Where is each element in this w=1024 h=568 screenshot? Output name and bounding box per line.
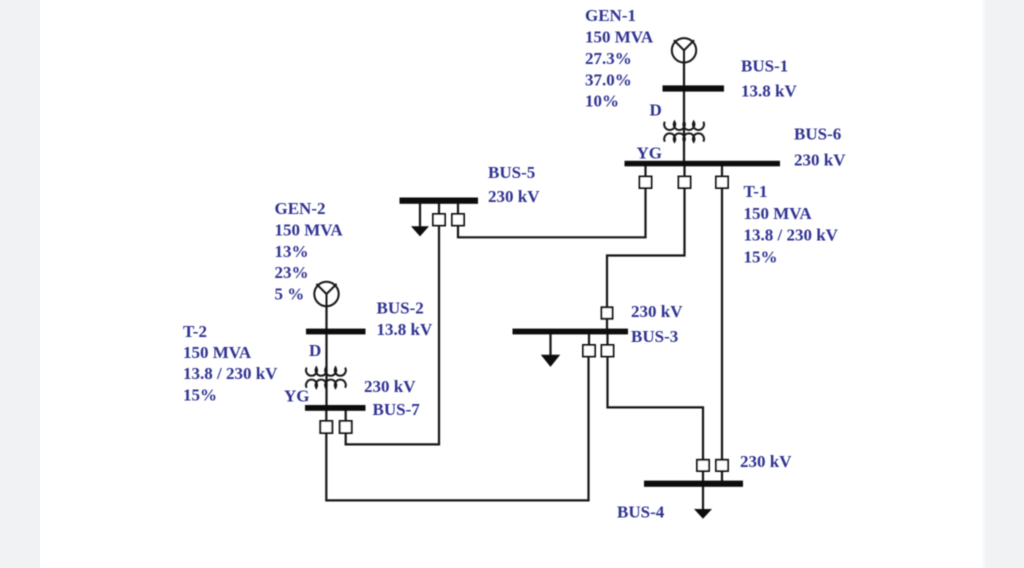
breaker BUS-3 1: [583, 345, 595, 357]
wire BUS-3 breaker 2 to BUS-4 breaker 1: [608, 357, 704, 460]
breaker BUS-6 B: [679, 177, 691, 189]
svg-text:27.3%: 27.3%: [585, 49, 632, 68]
breaker BUS-4 1: [697, 460, 709, 471]
svg-text:BUS-7: BUS-7: [373, 400, 421, 419]
breaker above BUS-3: [602, 307, 613, 318]
svg-text:230 kV: 230 kV: [631, 302, 683, 321]
wire BUS-5 breaker B stem: [457, 204, 459, 214]
svg-text:10%: 10%: [585, 92, 619, 111]
transformer T-1: [664, 122, 704, 142]
label T-2 block: [183, 322, 278, 405]
wire BUS-5 breaker A to BUS-7 breaker 2: [346, 226, 439, 445]
wire BUS-3 load stem: [549, 334, 551, 356]
breaker BUS-7 2: [340, 421, 352, 433]
load arrow BUS-3: [541, 355, 560, 367]
svg-text:13.8 / 230 kV: 13.8 / 230 kV: [744, 226, 839, 245]
bus BUS-3: [513, 329, 629, 335]
svg-text:T-1: T-1: [744, 182, 768, 201]
bus BUS-4: [644, 481, 743, 487]
svg-text:230 kV: 230 kV: [488, 187, 540, 206]
svg-text:230 kV: 230 kV: [364, 377, 416, 396]
T-2 primary winding (delta side): [306, 368, 346, 376]
svg-text:150 MVA: 150 MVA: [744, 204, 813, 223]
svg-text:BUS-5: BUS-5: [488, 163, 535, 182]
breaker BUS-5 B: [452, 214, 464, 226]
generator GEN-1: [672, 38, 696, 62]
T-1 primary winding (delta side): [664, 122, 704, 130]
svg-text:BUS-1: BUS-1: [741, 57, 788, 76]
wire BUS-4 breaker 2 stem: [721, 471, 723, 481]
label BUS-6: [794, 125, 846, 170]
wire BUS-5 load stem: [419, 204, 421, 227]
wire BUS-6 breaker C stem: [721, 166, 723, 177]
wire generator G2 to BUS-2 to transformer T-2 to BUS-7: [325, 306, 327, 405]
label T-1 block: [744, 182, 839, 267]
svg-text:YG: YG: [284, 386, 310, 405]
svg-text:15%: 15%: [744, 248, 778, 267]
svg-text:YG: YG: [637, 143, 663, 162]
wire BUS-5 breaker A stem: [438, 204, 440, 214]
breaker BUS-6 A: [640, 177, 652, 189]
breaker BUS-3 2: [602, 345, 614, 357]
wire BUS-6 breaker A stem: [644, 166, 646, 177]
wire breaker above BUS-3 to BUS-3: [606, 319, 608, 329]
svg-text:13%: 13%: [275, 242, 309, 261]
label BUS-1: [741, 57, 797, 101]
wire generator G1 to BUS-1 to transformer T-1 to BUS-6: [683, 62, 685, 161]
svg-text:T-2: T-2: [183, 322, 207, 341]
wire BUS-6 breaker B to breaker above BUS-3: [607, 188, 685, 307]
breaker BUS-5 A: [433, 214, 445, 226]
svg-text:150 MVA: 150 MVA: [275, 221, 344, 240]
T-1 secondary winding (wye side): [664, 133, 704, 141]
generator GEN-2: [314, 282, 338, 306]
breaker BUS-6 C: [716, 177, 728, 189]
left gray margin: [0, 0, 40, 568]
svg-text:BUS-4: BUS-4: [617, 503, 665, 522]
wire BUS-4 load stem: [702, 487, 704, 510]
transformer T-2: [306, 368, 346, 388]
wire BUS-3 breaker 1 stem: [588, 334, 590, 345]
wire BUS-6 breaker B stem: [683, 166, 685, 177]
svg-text:150 MVA: 150 MVA: [585, 28, 654, 47]
svg-text:GEN-1: GEN-1: [585, 6, 636, 25]
wire BUS-3 breaker 2 stem: [606, 334, 608, 345]
svg-text:BUS-6: BUS-6: [794, 125, 841, 144]
bus BUS-6: [625, 161, 781, 167]
svg-text:BUS-2: BUS-2: [377, 299, 424, 318]
svg-text:230 kV: 230 kV: [740, 452, 792, 471]
T-2 secondary winding (wye side): [306, 380, 346, 388]
svg-text:13.8 / 230 kV: 13.8 / 230 kV: [183, 364, 278, 383]
wire BUS-7 breaker 1 to BUS-3 breaker 1: [326, 357, 588, 501]
svg-text:BUS-3: BUS-3: [631, 327, 678, 346]
label BUS-5: [488, 163, 540, 206]
bus BUS-5: [400, 198, 479, 204]
label GEN-2 block: [275, 199, 344, 304]
svg-text:D: D: [650, 100, 662, 119]
wire BUS-4 breaker 1 stem: [702, 471, 704, 481]
wire BUS-7 breaker 1 stem: [325, 411, 327, 421]
svg-text:230 kV: 230 kV: [794, 151, 846, 170]
svg-text:5 %: 5 %: [275, 285, 305, 304]
label GEN-1 block: [585, 6, 654, 111]
svg-text:D: D: [309, 341, 321, 360]
load arrow BUS-4: [694, 509, 712, 519]
svg-text:13.8 kV: 13.8 kV: [741, 82, 797, 101]
bus BUS-2: [306, 329, 366, 335]
svg-text:13.8 kV: 13.8 kV: [377, 320, 433, 339]
svg-text:15%: 15%: [183, 386, 217, 405]
wire BUS-6 breaker A to BUS-5 breaker B: [458, 188, 646, 237]
bus BUS-1: [663, 85, 725, 91]
svg-text:37.0%: 37.0%: [585, 71, 632, 90]
svg-text:150 MVA: 150 MVA: [183, 343, 252, 362]
svg-text:23%: 23%: [275, 263, 309, 282]
breaker BUS-4 2: [716, 460, 728, 471]
svg-text:GEN-2: GEN-2: [275, 199, 326, 218]
wire BUS-6 breaker C to BUS-4 breaker 2: [721, 188, 723, 460]
breaker BUS-7 1: [320, 421, 332, 433]
label BUS-2: [377, 299, 433, 340]
bus BUS-7: [305, 405, 366, 411]
wire BUS-7 breaker 2 stem: [345, 411, 347, 421]
load arrow BUS-5: [411, 226, 429, 236]
